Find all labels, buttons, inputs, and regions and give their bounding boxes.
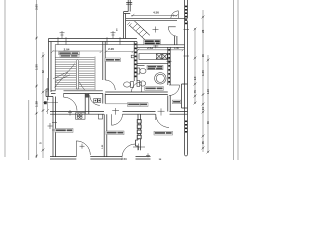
svg-text:3.60: 3.60 bbox=[35, 4, 39, 10]
svg-text:1.10: 1.10 bbox=[207, 89, 210, 94]
svg-text:2.04: 2.04 bbox=[64, 48, 70, 52]
svg-text:2.53: 2.53 bbox=[147, 46, 153, 50]
svg-text:1.38: 1.38 bbox=[35, 101, 39, 107]
svg-text:26: 26 bbox=[201, 29, 205, 33]
svg-text:1.40: 1.40 bbox=[201, 70, 205, 76]
svg-text:4.50: 4.50 bbox=[153, 11, 159, 15]
svg-text:1.50: 1.50 bbox=[35, 64, 39, 70]
svg-text:2.53: 2.53 bbox=[121, 157, 127, 160]
svg-text:2.26: 2.26 bbox=[108, 47, 114, 51]
